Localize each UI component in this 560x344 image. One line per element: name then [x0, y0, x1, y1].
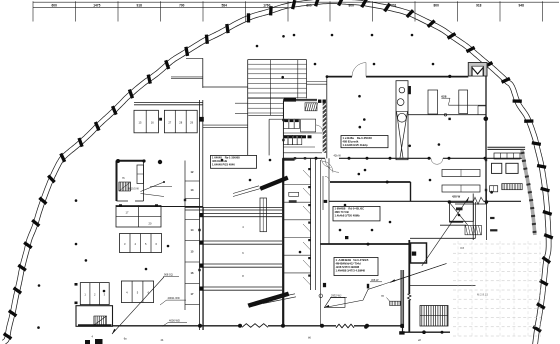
grand stair (top-center) with treads — [247, 60, 249, 156]
loading hall stripes — [202, 207, 204, 330]
svg-text:584: 584 — [222, 3, 228, 7]
parking cells 1-3 — [80, 283, 109, 305]
entrance vestibule block with M-fold door — [468, 63, 487, 77]
link corridor double line — [307, 81, 327, 83]
parking cells 4-6 — [121, 281, 153, 303]
hall partition line — [448, 104, 486, 106]
equipment racks in hall — [428, 90, 438, 114]
cell row y234 — [120, 234, 162, 253]
mid walls y182 and y201 — [330, 181, 411, 183]
svg-text:1 6M4B8 Rd-0-45L/0C: 1 6M4B8 Rd-0-45L/0C — [335, 207, 365, 211]
toilet block with stalls and fixtures — [282, 101, 284, 159]
svg-text:-B08 5/4T/3 4B4M8: -B08 5/4T/3 4B4M8 — [336, 265, 360, 269]
svg-text:1.64648 P/23 4846: 1.64648 P/23 4846 — [212, 163, 235, 167]
svg-text:628: 628 — [441, 94, 446, 98]
svg-text:M.2.8.15: M.2.8.15 — [477, 293, 488, 297]
svg-text:2932 WJ: 2932 WJ — [331, 294, 342, 298]
facade mullion hatch dashes — [4, 334, 12, 339]
svg-text:1.b4d48 H/25 4bkdp: 1.b4d48 H/25 4bkdp — [343, 143, 368, 147]
svg-text:1 64648 Ra-1-300/68: 1 64648 Ra-1-300/68 — [212, 156, 240, 160]
faint construction grid — [453, 243, 541, 245]
label box B (stair note) — [211, 155, 257, 168]
corridor cross walls — [116, 206, 203, 208]
small shaft room — [411, 243, 427, 263]
shelving bars — [442, 170, 480, 177]
area leaders left — [112, 277, 164, 334]
main corridor wall y158 with doors — [283, 157, 326, 159]
svg-text:800: 800 — [349, 3, 355, 7]
svg-text:908 SQ: 908 SQ — [164, 273, 173, 277]
right corridor walls — [408, 240, 410, 294]
svg-text:488 82cevdk: 488 82cevdk — [343, 139, 359, 143]
label box A (hall note) — [341, 136, 388, 148]
ramp edge bars — [260, 176, 289, 191]
annex curtain wall with mullions — [522, 150, 535, 235]
dark door header block — [284, 98, 296, 102]
leader arrow to dept — [422, 197, 469, 266]
leader arrow bottom right — [390, 264, 447, 283]
leader lines from stair room — [141, 182, 165, 192]
svg-text:4000 WD: 4000 WD — [169, 319, 180, 323]
label box D (equipment note) — [334, 258, 378, 276]
right annex rooms — [487, 146, 525, 148]
bottom-right stair treads — [420, 306, 448, 327]
partition symbols — [319, 294, 323, 298]
below-stair corridor walls — [268, 119, 270, 155]
svg-text:1 e4b48a Ra-0-350/48: 1 e4b48a Ra-0-350/48 — [343, 136, 373, 140]
svg-text:800: 800 — [434, 3, 440, 7]
svg-text:1 .A4M4B4B 5d-0-4TkS/5: 1 .A4M4B4B 5d-0-4TkS/5 — [336, 258, 369, 262]
building right wall — [485, 76, 487, 204]
landing partition lines — [235, 102, 248, 104]
hall lower wall — [408, 114, 486, 116]
svg-text:428 W: 428 W — [452, 195, 460, 199]
bottom-left hatch marks — [85, 340, 90, 344]
label box C (room note) — [333, 206, 380, 221]
table block 2x2 — [116, 206, 161, 228]
hatched pier band — [323, 103, 326, 153]
door jamb ticks — [294, 157, 296, 159]
wall y244 and y238 region — [472, 194, 474, 241]
svg-text:M.10.5 W: M.10.5 W — [128, 188, 139, 191]
main hall top wall with door — [327, 76, 352, 78]
svg-text:4M4B4N0d4C/-T04d: 4M4B4N0d4C/-T04d — [336, 261, 361, 265]
ramp trapezoid — [325, 297, 346, 307]
svg-text:468 Kkondk: 468 Kkondk — [212, 159, 228, 163]
svg-text:1475: 1475 — [93, 3, 100, 7]
duct shaft with cross bracing — [396, 81, 408, 160]
svg-text:42b W: 42b W — [334, 155, 342, 158]
room with diagonal and step hatch — [449, 202, 473, 221]
upper-left landing walls — [186, 57, 203, 59]
svg-text:908: 908 — [460, 247, 465, 250]
central corridor rooms and door swings — [282, 158, 284, 326]
structural column dots — [293, 34, 296, 37]
svg-text:4M6 70 V/B: 4M6 70 V/B — [335, 210, 349, 214]
bottom facade wall with window zigzags — [113, 325, 242, 327]
locker rows — [134, 110, 158, 133]
left stair room — [116, 161, 118, 202]
bottom-left room with stair — [76, 306, 113, 327]
main hall left wall — [326, 77, 328, 159]
svg-text:948: 948 — [519, 3, 525, 7]
svg-text:918: 918 — [476, 3, 482, 7]
top dimension ruler with ticks and values — [33, 1, 559, 3]
svg-text:918: 918 — [137, 3, 143, 7]
small room column with numbers — [184, 161, 186, 311]
svg-text:700: 700 — [179, 3, 185, 7]
svg-text:600: 600 — [52, 3, 58, 7]
svg-text:1.4M4B8 3/4T/3 4.BM48: 1.4M4B8 3/4T/3 4.BM48 — [336, 268, 366, 272]
svg-text:1.4b4k8 2/T20 48Mb: 1.4b4k8 2/T20 48Mb — [335, 214, 360, 218]
svg-text:40011 WD: 40011 WD — [168, 296, 180, 300]
wall y285 — [410, 285, 476, 287]
svg-text:308 W: 308 W — [371, 278, 379, 282]
small barcode mark — [390, 301, 401, 305]
